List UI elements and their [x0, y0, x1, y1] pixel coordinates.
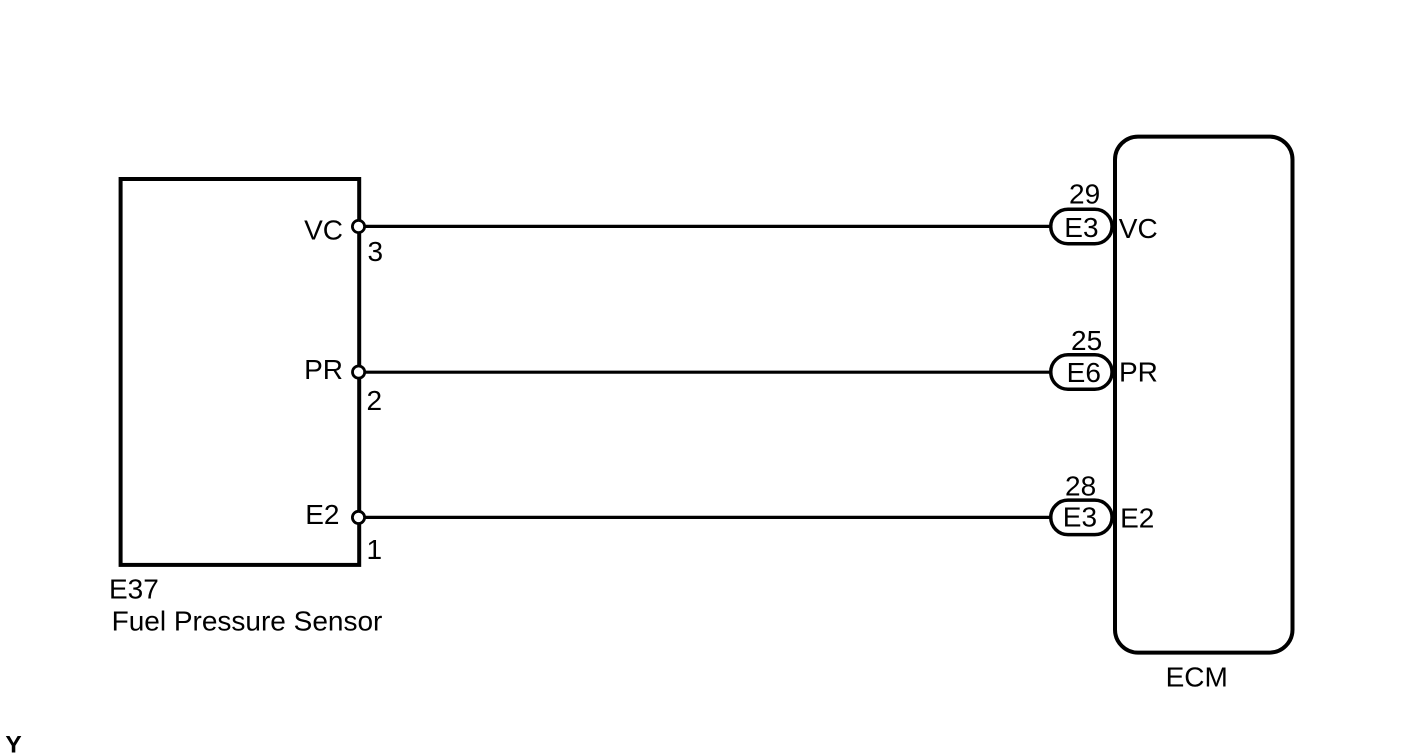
svg-text:VC: VC — [1119, 213, 1158, 244]
svg-text:25: 25 — [1071, 325, 1102, 356]
connector oval E3 (pin 28) — [1051, 500, 1112, 535]
svg-text:2: 2 — [367, 385, 383, 416]
component ECM box — [1115, 137, 1293, 653]
svg-text:PR: PR — [1119, 357, 1158, 388]
svg-text:29: 29 — [1069, 179, 1100, 210]
pin terminal circle, E37 pin 1 (E2) — [352, 511, 364, 523]
svg-text:VC: VC — [304, 214, 343, 245]
pin terminal circle, E37 pin 2 (PR) — [353, 366, 365, 378]
svg-text:E2: E2 — [1120, 503, 1154, 534]
pin terminal circle, E37 pin 3 (VC) — [352, 220, 364, 232]
wire PR: E37 pin 2 to ECM E6-25 — [359, 371, 1061, 374]
svg-text:PR: PR — [304, 354, 343, 385]
svg-text:Y: Y — [5, 731, 21, 756]
svg-text:1: 1 — [367, 534, 383, 565]
component E37 Fuel Pressure Sensor box — [121, 179, 360, 565]
svg-text:E37: E37 — [109, 573, 159, 604]
svg-text:3: 3 — [368, 236, 384, 267]
connector oval E6 (pin 25) — [1051, 355, 1112, 390]
connector oval E3 (pin 29) — [1051, 209, 1112, 244]
wire VC: E37 pin 3 to ECM E3-29 — [359, 225, 1061, 228]
svg-text:Fuel Pressure Sensor: Fuel Pressure Sensor — [112, 605, 383, 636]
svg-text:E3: E3 — [1063, 501, 1097, 532]
svg-text:ECM: ECM — [1166, 662, 1228, 693]
svg-text:E6: E6 — [1067, 357, 1101, 388]
svg-text:28: 28 — [1065, 470, 1096, 501]
svg-text:E3: E3 — [1064, 212, 1098, 243]
wire E2: E37 pin 1 to ECM E3-28 — [359, 516, 1061, 519]
svg-text:E2: E2 — [305, 499, 339, 530]
